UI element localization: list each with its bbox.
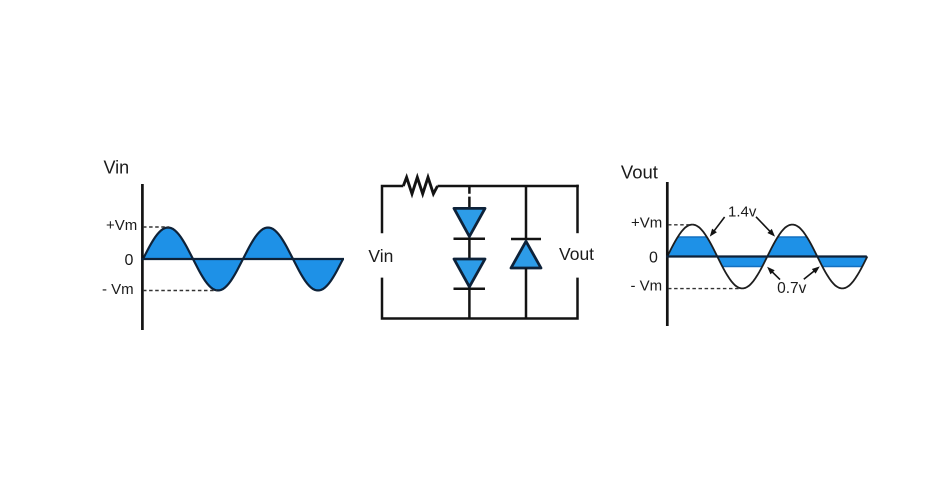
- svg-text:0.7v: 0.7v: [777, 280, 807, 297]
- wire: top node to diode D1 (with small gap): [468, 186, 471, 208]
- Vin zero line: [141, 258, 344, 260]
- top wire from resistor to right: [438, 185, 579, 188]
- Vout clipped waveform edge: [667, 237, 867, 267]
- svg-text:0: 0: [649, 250, 658, 267]
- resistor R1: [403, 177, 437, 194]
- arrow from 1.4v to second positive clip: [756, 217, 775, 237]
- Vin vertical axis: [141, 184, 144, 330]
- arrow from 1.4v to first positive clip: [710, 217, 725, 237]
- diode D3 cathode bar: [511, 238, 541, 241]
- svg-text:- Vm: - Vm: [631, 278, 663, 295]
- svg-text:Vout: Vout: [559, 244, 594, 264]
- diode D3 (up): [511, 241, 541, 268]
- svg-text:1.4v: 1.4v: [728, 203, 757, 220]
- Vout zero line: [666, 255, 867, 257]
- arrow from 0.7v to second negative clip: [804, 266, 820, 279]
- svg-text:+Vm: +Vm: [631, 215, 662, 232]
- diode D2 cathode bar: [454, 287, 486, 290]
- diode D1 (down): [454, 208, 485, 236]
- Vout full sine outline: [667, 225, 867, 289]
- diode D1 cathode bar: [454, 237, 486, 240]
- svg-text:+Vm: +Vm: [106, 217, 137, 234]
- right wire upper segment: [576, 185, 579, 234]
- Vin -Vm dashed level: [143, 290, 217, 292]
- diode D2 (down): [454, 259, 485, 287]
- Vin waveform fill: [143, 228, 343, 291]
- Vout clipped waveform fill: [667, 237, 867, 267]
- Vout +Vm dashed level: [668, 224, 693, 226]
- Vout -Vm dashed level: [668, 288, 740, 290]
- wire: D3 to bottom wire: [525, 268, 528, 319]
- left wire lower segment: [382, 278, 578, 319]
- svg-text:Vin: Vin: [104, 158, 130, 178]
- Vout vertical axis: [666, 182, 669, 326]
- circuit top wire with input node: [382, 186, 403, 233]
- svg-text:Vout: Vout: [621, 162, 658, 183]
- svg-text:- Vm: - Vm: [102, 281, 134, 298]
- Vin +Vm dashed level: [143, 226, 169, 228]
- wire: D2 to bottom wire: [468, 289, 471, 319]
- svg-text:0: 0: [125, 252, 134, 269]
- wire: D1 to D2: [468, 239, 471, 259]
- Vin sine curve stroke: [143, 228, 343, 291]
- svg-text:Vin: Vin: [368, 246, 393, 266]
- wire: top wire to diode D3: [525, 186, 528, 240]
- arrow from 0.7v to first negative clip: [767, 267, 780, 280]
